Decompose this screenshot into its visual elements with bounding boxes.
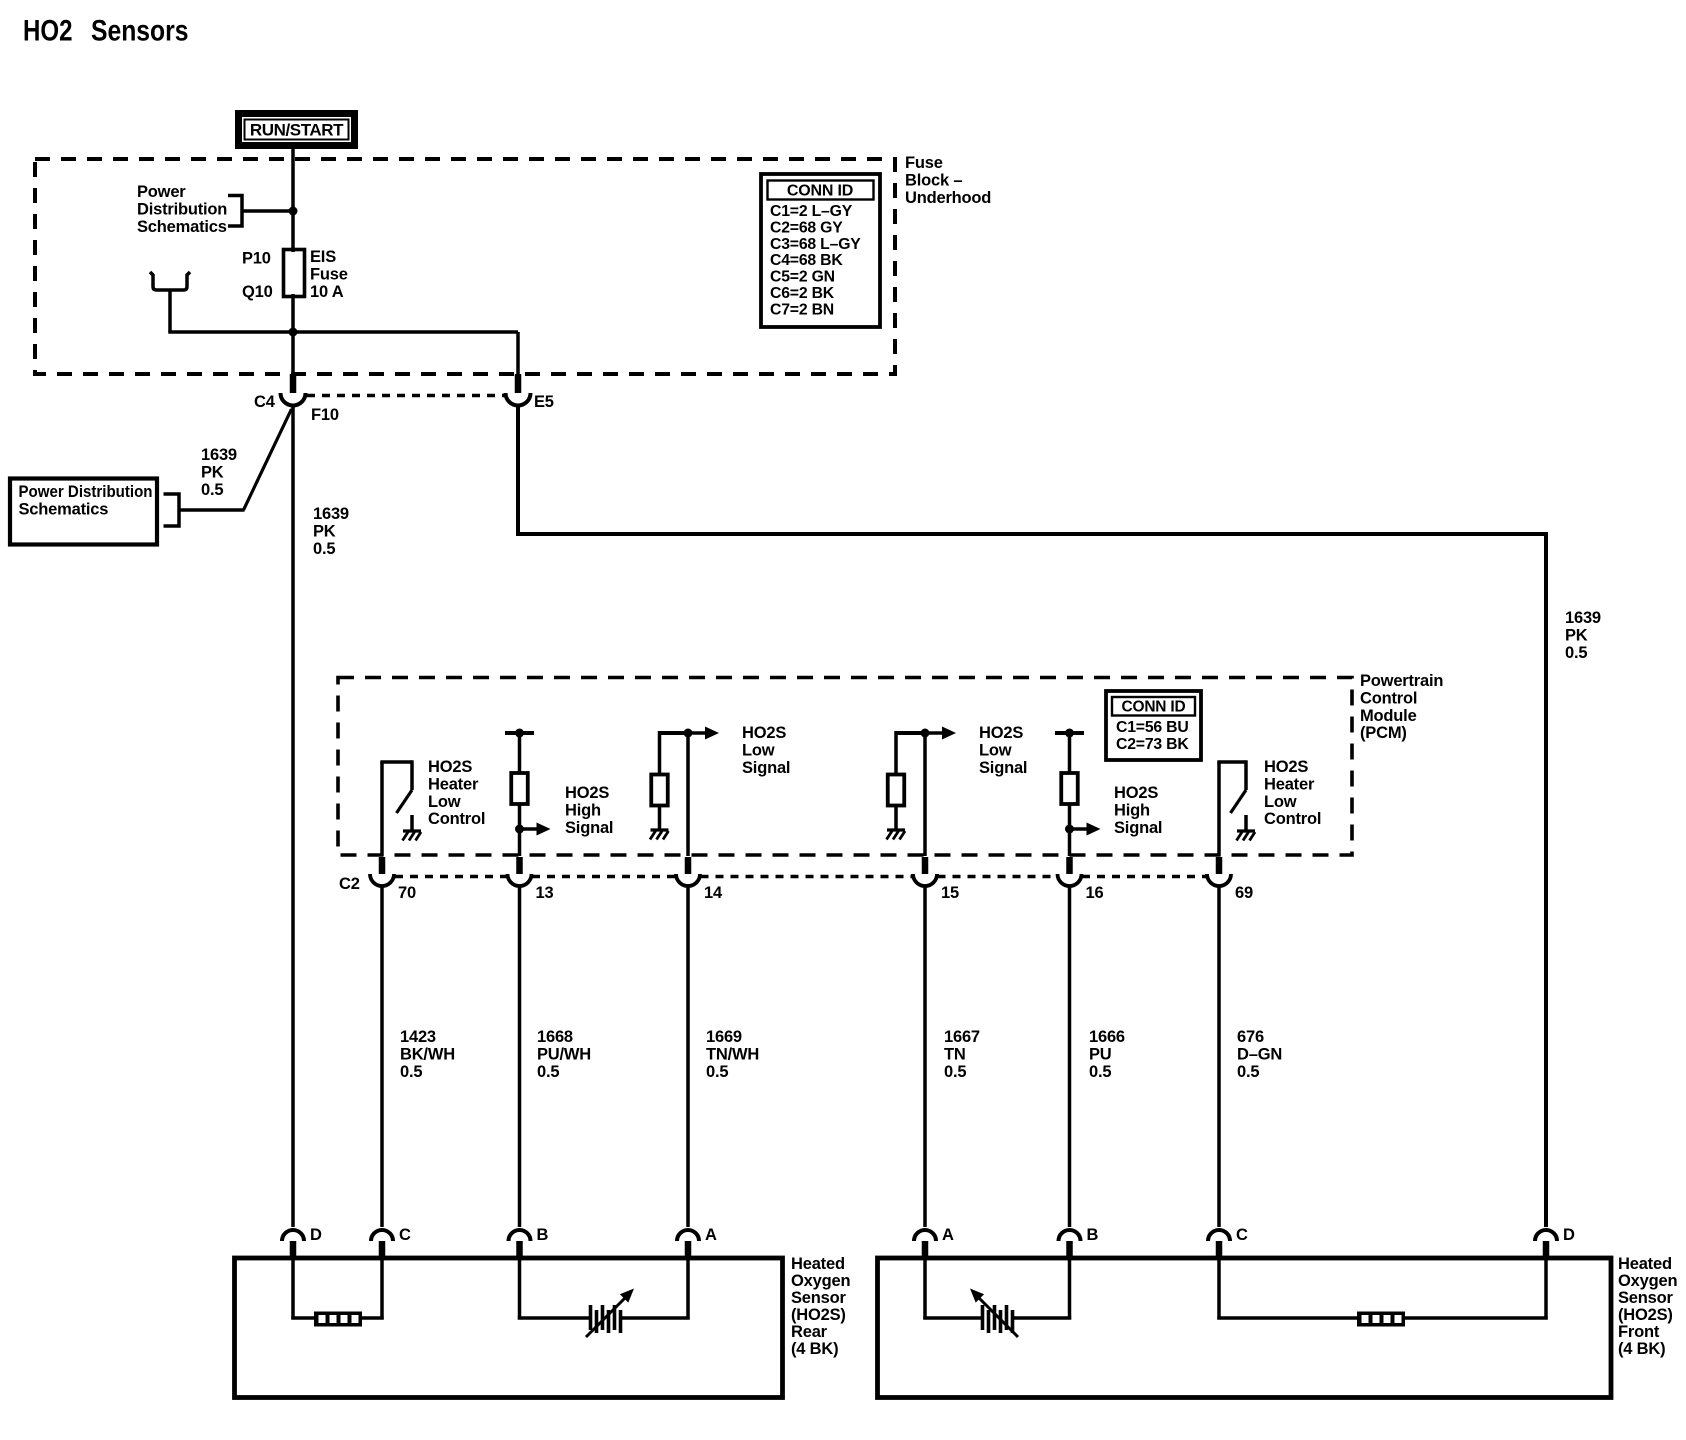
connector half pin 13 <box>508 874 532 886</box>
resistor to ground: HO2S low signal (pin 14) <box>651 727 719 831</box>
svg-text:(4 BK): (4 BK) <box>791 1340 838 1358</box>
connector stub pin 69 <box>1216 857 1223 874</box>
label: HO2S High Signal (pin 16) <box>1114 784 1162 837</box>
svg-text:Control: Control <box>1264 810 1321 828</box>
wire: bracket to tap junction <box>242 209 293 213</box>
wire: sensing element to rear A <box>622 1316 690 1320</box>
wire 1668 PU/WH: pin 13 to rear B <box>518 887 522 1228</box>
connector stub pin A (sensor) <box>922 1241 929 1257</box>
connector stub pin 13 <box>516 857 523 874</box>
connector stub pin B (sensor) <box>1066 1241 1073 1257</box>
resistor: HO2S high signal (pin 13) <box>505 729 551 857</box>
wire: long run to right edge <box>516 532 1546 536</box>
svg-text:Power Distribution: Power Distribution <box>19 483 153 501</box>
svg-text:15: 15 <box>941 884 959 902</box>
connector half pin 69 <box>1207 874 1231 886</box>
ground (pin 70 switch) <box>403 815 422 841</box>
svg-text:Fuse: Fuse <box>905 154 943 172</box>
wire label: 1666 PU 0.5 <box>1089 1028 1125 1081</box>
CONN ID table (PCM) <box>1106 691 1201 760</box>
fuse block - underhood (dashed box) <box>35 159 895 374</box>
connector half E5 <box>506 393 531 405</box>
connector half pin A (sensor) <box>677 1230 699 1241</box>
svg-text:C5=2 GN: C5=2 GN <box>770 269 835 286</box>
svg-text:Powertrain: Powertrain <box>1360 672 1443 690</box>
svg-text:Oxygen: Oxygen <box>791 1272 850 1290</box>
wire label: 1639 PK 0.5 (upper left) <box>201 446 237 499</box>
wire 1667 TN: pin 15 to front A <box>923 887 927 1228</box>
connector half pin B (sensor) <box>509 1230 531 1241</box>
svg-text:(PCM): (PCM) <box>1360 724 1407 742</box>
connector stub pin 15 <box>922 857 929 874</box>
svg-text:HO2S: HO2S <box>428 758 472 776</box>
oxygen sensing element (rear, arrow up-right) <box>586 1289 634 1338</box>
svg-text:Rear: Rear <box>791 1323 828 1341</box>
svg-text:16: 16 <box>1086 884 1104 902</box>
wire 1669 TN/WH: pin 14 to rear A <box>686 887 690 1228</box>
svg-text:0.5: 0.5 <box>944 1063 966 1081</box>
connector half pin 14 <box>676 874 700 886</box>
svg-text:1639: 1639 <box>201 446 237 464</box>
wire: switch vertical lead <box>1217 762 1221 856</box>
heated oxygen sensor HO2S front box <box>878 1258 1612 1398</box>
svg-text:Low: Low <box>428 793 461 811</box>
power distribution schematics box <box>10 479 157 545</box>
svg-text:HO2S: HO2S <box>1114 784 1158 802</box>
svg-text:Block –: Block – <box>905 171 962 189</box>
svg-text:0.5: 0.5 <box>1237 1063 1259 1081</box>
svg-text:C1=2 L–GY: C1=2 L–GY <box>770 203 853 220</box>
svg-text:C7=2 BN: C7=2 BN <box>770 301 834 318</box>
svg-text:D: D <box>1563 1226 1575 1244</box>
wire: pin 14 junction down <box>686 733 690 856</box>
svg-text:PK: PK <box>313 522 336 540</box>
svg-text:Heated: Heated <box>1618 1255 1672 1273</box>
connector E5 stub <box>515 374 522 393</box>
connector stub pin D (sensor) <box>290 1241 297 1257</box>
connector half pin A (sensor) <box>914 1230 936 1241</box>
svg-text:1668: 1668 <box>537 1028 573 1046</box>
svg-text:Oxygen: Oxygen <box>1618 1272 1677 1290</box>
svg-text:Heater: Heater <box>1264 775 1315 793</box>
connector line C4-E5 (dotted) <box>307 394 504 398</box>
svg-text:13: 13 <box>536 884 554 902</box>
wire: sensing element to front B <box>1014 1316 1071 1320</box>
oxygen sensing element (front, arrow up-left) <box>970 1289 1018 1338</box>
svg-text:Signal: Signal <box>979 759 1027 777</box>
connector half pin 15 <box>913 874 937 886</box>
svg-text:High: High <box>565 801 601 819</box>
label: Heated Oxygen Sensor (HO2S) Rear (4 BK) <box>791 1255 850 1358</box>
svg-text:A: A <box>942 1226 954 1244</box>
svg-text:676: 676 <box>1237 1028 1264 1046</box>
svg-text:1667: 1667 <box>944 1028 980 1046</box>
wire: switch top bar <box>1217 760 1246 764</box>
svg-text:70: 70 <box>398 884 416 902</box>
connector line C2 (dotted segments) <box>395 875 507 879</box>
svg-text:1423: 1423 <box>400 1028 436 1046</box>
svg-text:Signal: Signal <box>565 819 613 837</box>
svg-text:F10: F10 <box>311 406 339 424</box>
wire label: 676 D–GN 0.5 <box>1237 1028 1282 1081</box>
switch blade (open contact) <box>397 790 413 813</box>
connector half pin D (sensor) <box>282 1230 304 1241</box>
svg-text:Heater: Heater <box>428 775 479 793</box>
connector half pin 16 <box>1058 874 1082 886</box>
svg-text:C4=68 BK: C4=68 BK <box>770 252 843 269</box>
wire: E5 down <box>516 405 520 534</box>
wire: heater to rear C <box>361 1316 384 1320</box>
svg-text:Low: Low <box>742 741 775 759</box>
wire label: 1639 PK 0.5 (center) <box>313 505 349 558</box>
fuse F10 EIS 10A (P10/Q10) <box>284 250 305 297</box>
svg-text:1669: 1669 <box>706 1028 742 1046</box>
connector stub pin 16 <box>1066 857 1073 874</box>
svg-text:Schematics: Schematics <box>19 501 109 519</box>
label: HO2S Low Signal (pin 15) <box>979 724 1027 777</box>
svg-text:EIS: EIS <box>310 248 336 266</box>
bracket: power distribution box <box>164 494 180 526</box>
svg-text:0.5: 0.5 <box>1565 644 1587 662</box>
svg-text:RUN/START: RUN/START <box>250 121 344 140</box>
wire: pin 15 junction down <box>923 733 927 856</box>
svg-text:(HO2S): (HO2S) <box>791 1306 846 1324</box>
svg-text:HO2: HO2 <box>23 15 73 48</box>
connector stub pin C (sensor) <box>379 1241 386 1257</box>
svg-text:Sensor: Sensor <box>1618 1289 1674 1307</box>
resistor: HO2S high signal (pin 16) <box>1055 729 1101 857</box>
svg-text:0.5: 0.5 <box>400 1063 422 1081</box>
wire: bus inside fuse block <box>168 330 518 334</box>
resistor to ground: HO2S low signal (pin 15) <box>888 727 956 831</box>
wire label: 1667 TN 0.5 <box>944 1028 980 1081</box>
svg-text:CONN ID: CONN ID <box>1121 699 1185 716</box>
wire: diagonal branch to power distribution schematics <box>244 409 292 510</box>
wire label: 1423 BK/WH 0.5 <box>400 1028 455 1081</box>
powertrain control module PCM (dashed box) <box>338 678 1352 856</box>
svg-text:PK: PK <box>1565 626 1588 644</box>
svg-text:C3=68 L–GY: C3=68 L–GY <box>770 236 861 253</box>
ground (pin 14 resistor) <box>650 830 669 840</box>
svg-text:PU/WH: PU/WH <box>537 1045 591 1063</box>
connector stub pin A (sensor) <box>685 1241 692 1257</box>
connector half pin C (sensor) <box>371 1230 393 1241</box>
svg-text:10 A: 10 A <box>310 283 344 301</box>
svg-text:HO2S: HO2S <box>565 784 609 802</box>
bracket: power distribution reference <box>228 196 242 227</box>
svg-text:C: C <box>399 1226 411 1244</box>
svg-text:High: High <box>1114 801 1150 819</box>
label: HO2S Low Signal (pin 14) <box>742 724 790 777</box>
wire: rear B to sensing element <box>518 1256 522 1320</box>
wire 1666 PU: pin 16 to front B <box>1068 887 1072 1228</box>
label: HO2S High Signal (pin 13) <box>565 784 613 837</box>
wire: front A to sensing element <box>923 1256 927 1320</box>
svg-text:Module: Module <box>1360 707 1417 725</box>
node: power distribution tap junction <box>289 207 298 216</box>
svg-text:Q10: Q10 <box>242 283 273 301</box>
wire label: 1669 TN/WH 0.5 <box>706 1028 759 1081</box>
svg-text:D: D <box>310 1226 322 1244</box>
svg-text:B: B <box>537 1226 549 1244</box>
svg-text:Signal: Signal <box>742 759 790 777</box>
connector half pin B (sensor) <box>1059 1230 1081 1241</box>
connector C4 stub <box>290 374 297 393</box>
svg-text:P10: P10 <box>242 250 271 268</box>
svg-text:0.5: 0.5 <box>313 540 335 558</box>
svg-text:0.5: 0.5 <box>706 1063 728 1081</box>
wire: right drop to front sensor D <box>1544 532 1548 1227</box>
wire: symbol down <box>168 290 172 332</box>
svg-text:Control: Control <box>1360 689 1417 707</box>
wire: switch vertical lead <box>380 762 384 856</box>
svg-text:Fuse: Fuse <box>310 265 348 283</box>
svg-text:Front: Front <box>1618 1323 1660 1341</box>
wire label: 1668 PU/WH 0.5 <box>537 1028 591 1081</box>
wire 676 D-GN: pin 69 to front C <box>1217 887 1221 1228</box>
svg-text:D–GN: D–GN <box>1237 1045 1282 1063</box>
svg-text:C4: C4 <box>254 393 276 411</box>
wire: fuse to C4 <box>291 294 295 391</box>
label: Heated Oxygen Sensor (HO2S) Front (4 BK) <box>1618 1255 1677 1358</box>
label: Power Distribution Schematics (in fuse block) <box>137 183 227 236</box>
svg-text:Power: Power <box>137 183 186 201</box>
svg-text:Sensors: Sensors <box>91 15 189 48</box>
switch blade (open contact) <box>1231 790 1247 813</box>
wire 1423 BK/WH: pin 70 to rear C <box>380 887 384 1228</box>
svg-text:BK/WH: BK/WH <box>400 1045 455 1063</box>
svg-text:C2=73 BK: C2=73 BK <box>1116 736 1189 753</box>
svg-text:A: A <box>705 1226 717 1244</box>
svg-text:TN/WH: TN/WH <box>706 1045 759 1063</box>
svg-text:(HO2S): (HO2S) <box>1618 1306 1673 1324</box>
svg-text:B: B <box>1087 1226 1099 1244</box>
svg-text:Low: Low <box>979 741 1012 759</box>
wire: heater to front D <box>1404 1316 1548 1320</box>
connector symbol (to other circuits) <box>150 272 190 290</box>
svg-text:Heated: Heated <box>791 1255 845 1273</box>
svg-text:1639: 1639 <box>313 505 349 523</box>
svg-text:E5: E5 <box>534 393 554 411</box>
heated oxygen sensor HO2S rear box <box>235 1258 783 1398</box>
svg-text:Signal: Signal <box>1114 819 1162 837</box>
switch: HO2S heater low control (pin 70) <box>380 760 412 856</box>
svg-text:TN: TN <box>944 1045 966 1063</box>
ignition feed RUN/START box <box>235 110 358 149</box>
svg-text:HO2S: HO2S <box>1264 758 1308 776</box>
label: EIS Fuse 10 A <box>310 248 348 301</box>
connector stub pin B (sensor) <box>516 1241 523 1257</box>
svg-text:(4 BK): (4 BK) <box>1618 1340 1665 1358</box>
CONN ID table (fuse block) <box>761 174 880 327</box>
svg-text:PU: PU <box>1089 1045 1112 1063</box>
connector stub pin D (sensor) <box>1543 1241 1550 1257</box>
wire: horizontal to bracket <box>179 508 245 512</box>
label: Powertrain Control Module (PCM) <box>1360 672 1443 742</box>
svg-text:C: C <box>1236 1226 1248 1244</box>
heater element (front) <box>1357 1312 1405 1327</box>
node: bus junction on main feed <box>289 328 298 337</box>
wire: bus to E5 <box>516 332 520 391</box>
svg-text:1639: 1639 <box>1565 609 1601 627</box>
wire: RUN/START to fuse F10 <box>291 148 295 252</box>
ground (pin 15 resistor) <box>887 830 906 840</box>
label: Fuse Block - Underhood <box>905 154 991 207</box>
svg-text:14: 14 <box>704 884 723 902</box>
wire: C4 to rear sensor D (1639 PK) <box>291 405 295 1227</box>
svg-text:69: 69 <box>1235 884 1253 902</box>
svg-text:C1=56 BU: C1=56 BU <box>1116 719 1189 736</box>
connector half pin C (sensor) <box>1208 1230 1230 1241</box>
connector half C4 <box>281 393 306 405</box>
svg-text:PK: PK <box>201 463 224 481</box>
svg-text:Sensor: Sensor <box>791 1289 847 1307</box>
heater element (rear) <box>314 1312 362 1327</box>
svg-text:Low: Low <box>1264 793 1297 811</box>
svg-text:HO2S: HO2S <box>979 724 1023 742</box>
wire label: 1639 PK 0.5 (right) <box>1565 609 1601 662</box>
label: HO2S Heater Low Control (right) <box>1264 758 1321 828</box>
svg-text:C6=2 BK: C6=2 BK <box>770 285 835 302</box>
switch: HO2S heater low control (pin 69) <box>1217 760 1246 856</box>
wire: front C to heater <box>1217 1256 1221 1320</box>
connector half pin 70 <box>370 874 394 886</box>
connector stub pin 14 <box>685 857 692 874</box>
svg-text:C2=68 GY: C2=68 GY <box>770 219 843 236</box>
svg-text:CONN ID: CONN ID <box>787 183 853 200</box>
svg-text:1666: 1666 <box>1089 1028 1125 1046</box>
svg-text:0.5: 0.5 <box>201 481 223 499</box>
svg-text:Schematics: Schematics <box>137 218 227 236</box>
connector stub pin 70 <box>379 857 386 874</box>
connector half pin D (sensor) <box>1535 1230 1557 1241</box>
svg-text:Distribution: Distribution <box>137 200 227 218</box>
svg-text:0.5: 0.5 <box>1089 1063 1111 1081</box>
ground (pin 69 switch) <box>1237 815 1256 841</box>
wire: rear D to heater <box>291 1256 295 1320</box>
svg-text:HO2S: HO2S <box>742 724 786 742</box>
connector stub pin C (sensor) <box>1216 1241 1223 1257</box>
wire: switch top bar <box>380 760 412 764</box>
svg-text:C2: C2 <box>339 875 360 893</box>
label: HO2S Heater Low Control (left) <box>428 758 485 828</box>
svg-text:Control: Control <box>428 810 485 828</box>
svg-text:0.5: 0.5 <box>537 1063 559 1081</box>
svg-text:Underhood: Underhood <box>905 189 991 207</box>
